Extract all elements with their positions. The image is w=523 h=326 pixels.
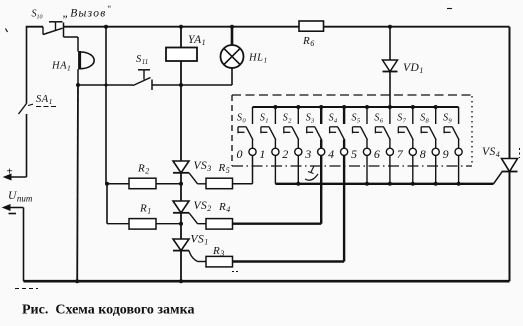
svg-text:+: + [7, 166, 13, 178]
svg-text:0: 0 [237, 147, 243, 161]
svg-text:3: 3 [304, 147, 311, 161]
svg-text:6: 6 [374, 147, 380, 161]
svg-text:2: 2 [282, 147, 288, 161]
svg-text:5: 5 [351, 147, 357, 161]
svg-text:1: 1 [259, 147, 265, 161]
svg-text:9: 9 [443, 147, 449, 161]
svg-text:Рис. Схема кодового замка: Рис. Схема кодового замка [22, 303, 194, 318]
svg-text:8: 8 [420, 147, 426, 161]
svg-text:7: 7 [397, 147, 404, 161]
svg-text:4: 4 [328, 147, 334, 161]
